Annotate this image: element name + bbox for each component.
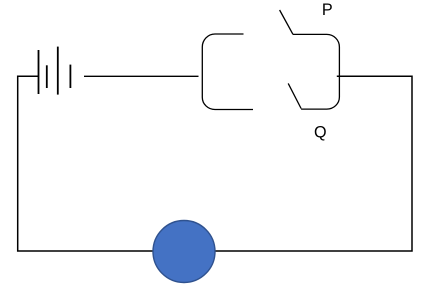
- battery B1 plate long (positive, left): [38, 50, 40, 94]
- lamp L1 (blue circle): [153, 221, 215, 283]
- battery B1 plate short (negative): [46, 65, 48, 88]
- wire: outer loop (top-right stub, right side, bottom, left side, to battery): [18, 76, 412, 251]
- switch P lever (open): [280, 10, 293, 34]
- switch Q lever (open): [288, 83, 301, 108]
- wire: battery to left bracket of switch pair: [84, 75, 199, 77]
- battery B1 plate long (second cell positive): [57, 47, 59, 95]
- battery B1 plate short (second cell negative): [69, 65, 71, 88]
- wire: right bracket (rejoins P and Q branches): [293, 34, 339, 109]
- wire: left bracket (splits into P and Q branches): [202, 34, 253, 110]
- svg-text:P: P: [322, 1, 333, 19]
- svg-text:Q: Q: [314, 123, 327, 141]
